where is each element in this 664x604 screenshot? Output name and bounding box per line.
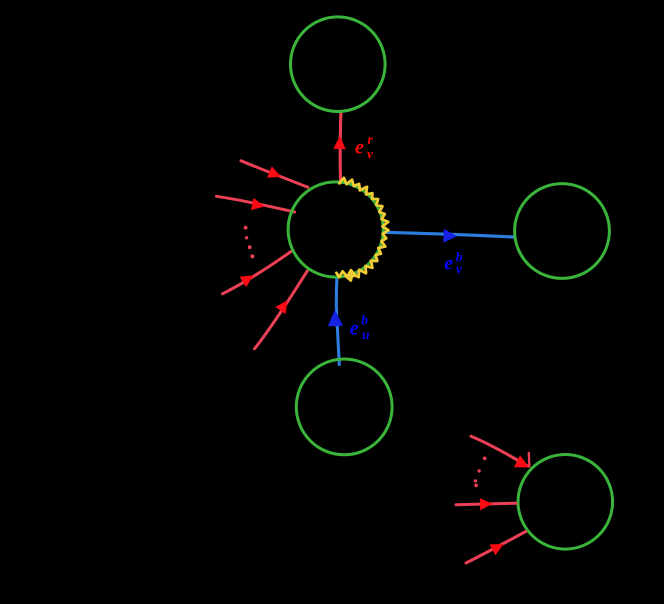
wire: red edge C into bottom-right node bbox=[456, 503, 516, 505]
node circle: top neighbor bbox=[291, 17, 386, 112]
svg-text:r: r bbox=[368, 132, 374, 147]
label e_v^b bbox=[444, 249, 463, 276]
yellow squiggle highlight on right half of node v bbox=[336, 178, 388, 281]
svg-text:b: b bbox=[361, 312, 368, 327]
wire: red edge from left arrow 1 into node v bbox=[241, 161, 308, 187]
arrowhead of red edge 1 bbox=[267, 166, 281, 178]
arrowhead of blue edge e_u^b bbox=[328, 310, 343, 327]
svg-text:v: v bbox=[367, 147, 374, 162]
arrowhead of blue edge e_v^b bbox=[443, 229, 457, 243]
arrowhead of red edge D bbox=[490, 544, 504, 555]
node circle: bottom-right node bbox=[518, 455, 613, 550]
arrowhead of red edge 2 bbox=[251, 198, 265, 210]
wire: red edge D into bottom-right node bbox=[466, 532, 526, 564]
node circle: right neighbor bbox=[515, 184, 610, 279]
arrowhead of red edge C bbox=[480, 498, 493, 510]
node circle: bottom node u bbox=[296, 359, 392, 455]
svg-text:u: u bbox=[362, 327, 370, 342]
arrowhead of red edge 3 bbox=[240, 275, 254, 287]
svg-text:v: v bbox=[456, 262, 463, 277]
arrowhead of red edge A bbox=[514, 455, 529, 467]
label e_u^b bbox=[350, 312, 370, 342]
wire: red edge from left arrow 4 into node v bbox=[255, 269, 309, 349]
svg-text:e: e bbox=[444, 253, 453, 275]
wire: red edge A into bottom-right node bbox=[471, 436, 528, 466]
wire: red edge e_v^r from node v up to top node bbox=[339, 112, 343, 183]
svg-text:e: e bbox=[355, 137, 364, 159]
wire: red edge from left arrow 2 into node v bbox=[217, 196, 295, 212]
arrowhead of red edge 4 bbox=[275, 300, 287, 314]
dotted red ellipsis (more incoming red edges of v) bbox=[244, 226, 255, 259]
overshoot stroke of hand-drawn arrowhead A bbox=[528, 453, 531, 467]
svg-text:e: e bbox=[350, 318, 359, 340]
label e_v^r bbox=[355, 132, 374, 162]
wire: blue edge e_u^b from bottom node u up to node v bbox=[336, 278, 339, 365]
arrowhead of red edge e_v^r bbox=[333, 136, 346, 149]
wire: blue edge e_v^b from node v to right node bbox=[384, 232, 513, 237]
dotted red ellipsis at bottom-right node bbox=[474, 457, 487, 488]
node circle: center node v bbox=[288, 182, 383, 277]
wire: red edge from left arrow 3 into node v bbox=[223, 252, 292, 294]
